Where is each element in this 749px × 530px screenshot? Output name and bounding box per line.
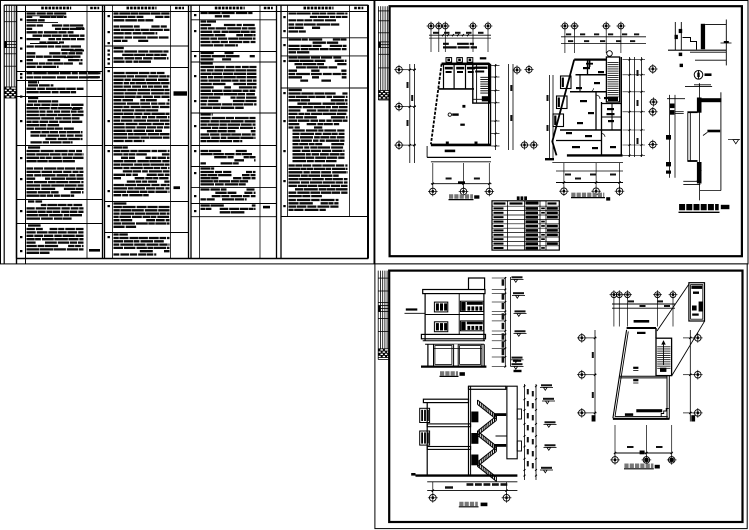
group1 section3 text [28,81,39,83]
schedule body smudges [494,207,504,209]
roof plan top axis bubbles [611,292,617,298]
plan2 stair shaft [606,57,619,102]
group3 number column marks [194,14,196,16]
section stair tower walls [507,386,517,459]
plan1 small rooms band [438,88,474,90]
section left ground flag [411,473,415,476]
group4 section4 text [289,89,302,91]
roof plan bottom axis bubbles [612,457,619,464]
section stair flights [478,400,497,415]
plan1 top axis bubbles [428,23,434,29]
schedule header smudges [494,202,506,204]
plan1 title first-floor-plan [449,194,473,199]
group4 section3 text [289,58,347,81]
section left wall [426,403,428,475]
roof plan slope arrows [633,367,638,369]
group1 special row text [27,73,99,77]
plan1 bottom dimension lines [431,161,491,163]
plan1 room fixtures [445,67,453,70]
section stairwell windows [517,409,521,419]
roof plan corner steps [661,409,669,417]
plan1 stair shaft [473,64,490,103]
frame of plans page [390,6,742,256]
bay window detail left dims [669,95,671,178]
spec table group section divider lines [17,71,103,73]
spec sheet page (top-left) [1,1,375,264]
plan2 right dim chain [629,57,631,157]
group1 section7 text [28,224,41,226]
group1 section6 text [28,200,42,202]
elevation window 3F-right [460,301,483,311]
frame of elevation page [389,271,742,522]
plan2 left bay windows [561,76,572,89]
bay window detail centerline [698,85,700,200]
roof plan title [624,464,653,469]
roof detail box [689,283,705,321]
plan2 interior walls [576,74,607,76]
roof plan top dims [612,303,675,305]
plan1 right dim ticks [495,64,497,150]
plan2 bottom dimensions [552,162,623,164]
roof plan gutter bar [636,409,662,412]
group3 section5 text [201,113,213,115]
plan1 roof vent marks above top wall [446,58,452,63]
elevation window 2F-right [460,321,483,331]
group3 section9 text [201,206,256,213]
elevation window 2F-left [434,322,447,332]
roof plan bottom dims [614,452,672,454]
group1 section1 underline rules [27,15,65,17]
group2 section1 text [114,14,170,21]
group3 section3 text [201,53,255,59]
plan1 right axis bubbles top [514,67,520,73]
spec table header row [17,11,369,13]
plan2 door arcs [596,95,600,99]
plan1 left axis bubbles and dims [396,66,403,73]
section bottom dims [427,481,517,483]
group2 section6 text [114,233,128,235]
roof plan inner division [620,375,667,377]
elevation string course [425,314,484,316]
bay window detail roof slab [700,98,721,102]
roof plan stair shaft [656,338,672,375]
group1 section1 text [27,14,67,21]
section right dim chains [524,384,526,480]
group1 section4 paragraph [28,97,38,99]
bay window sill flag [707,130,720,133]
group4 section2 text [289,40,347,53]
detail1 reference bubble [694,71,703,80]
section left bay windows [420,408,430,422]
group3 section7 text [201,167,215,169]
elevation second floor slab band [421,334,485,338]
plan1 interior marks [462,105,465,108]
group3 section2 text [201,20,217,22]
door window schedule title [517,196,527,200]
binding strip ruled columns [6,5,8,87]
group1 section5 text [28,146,40,148]
plan1 top dimension lines [429,34,491,36]
group3 section4 text [201,62,213,64]
plan1-2 shared bottom axis bubbles [521,142,527,148]
plan2 bottom axis bubbles [561,188,568,195]
group4 section1 text [289,14,348,21]
floor-plans page (top-right) [375,1,748,264]
section ground line [416,474,518,476]
group4 number column marks [283,16,285,18]
group1 special row note [89,73,101,77]
elevation-section page (bottom-right) [375,264,747,529]
group2 section3 text [0,0,1,1]
binding strip of plans page [377,6,379,100]
roof plan left axis bubbles [579,335,586,342]
door window schedule table [492,201,559,250]
roof plan leader lines to detail [657,284,689,331]
group2 cold-zone note block [174,91,188,95]
group2 note 440 [174,186,181,189]
elevation title [440,371,458,375]
roof plan outline [627,327,656,329]
plan2 left dim chain [549,75,551,160]
group3 section6 text [0,0,1,1]
roof plan rain outlet label [634,320,650,323]
group2 section5 text [114,202,127,204]
elevation shopfront shutters [435,346,452,365]
bay window detail title [679,204,719,210]
spec table column lines [16,5,18,258]
detail1 parapet section [674,22,676,50]
roof plan right axis bubbles [695,335,702,342]
plan1 shopfront strip [427,156,491,158]
group2 section4 text [114,146,128,148]
elevation ground line [421,366,486,368]
binding strip title block grid [4,88,16,90]
plan2 right axis bubbles [650,66,657,73]
section level flags [541,384,552,386]
group3 section8 text [201,190,256,200]
sheet frame [3,5,5,264]
plan1 outline walls [442,62,490,65]
plan2 top axis bubbles [562,23,568,29]
group3 note 280 [263,206,270,209]
group2 number column marks [108,15,110,17]
plan2 outline [574,58,606,60]
bay window detail wall [697,98,702,113]
bay window detail bottom [683,180,700,182]
group1 number column marks [20,19,22,21]
binding strip filled cells [4,42,6,48]
binding strip of elevation page [377,271,379,360]
section floor slabs [427,424,470,427]
elevation left level annotation [406,308,418,310]
section landing slabs [494,413,507,416]
plan2 title 2nd-3rd floor plan [571,193,604,197]
plan2 door bubble [607,51,613,57]
plan1 canopy text rows [443,44,477,48]
plan2 ramp label [545,158,554,160]
elevation right dim chains [504,277,506,367]
plan2 top dimension lines [561,36,646,38]
elevation parapet stub [469,278,485,289]
plan2 cross mark [586,63,593,65]
elevation level flags [512,276,523,278]
group1 note 7008 [89,249,100,252]
elevation window 3F-left [434,302,447,312]
group2 section2 text [114,47,124,49]
section title 1-1 [459,502,478,506]
section roof slabs [469,386,506,389]
group3 section1 text [201,13,253,16]
elevation walls [424,294,426,341]
elevation roof slab band [423,290,485,294]
roof plan hatch mark on top area [637,332,646,334]
elevation shopfront piers [427,344,429,366]
roof plan right chain top circle [650,99,656,105]
section axis bubbles [429,494,436,501]
plan1 bottom axis bubbles [430,188,437,195]
plan2 room label marks [583,67,590,69]
